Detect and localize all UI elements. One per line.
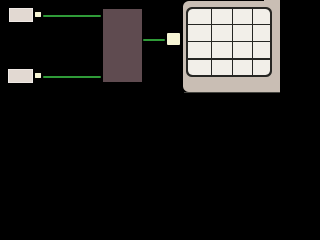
- grid vertical line 2: [232, 9, 234, 75]
- grid vertical line 3: [252, 9, 254, 75]
- grid horizontal line 1: [188, 24, 270, 26]
- module M1 bottom edge line: [184, 92, 280, 93]
- wire W3 (U1 right to module pin): [143, 39, 165, 41]
- wire W2 (SW2 pin to U1 left, lower): [43, 76, 101, 78]
- module M1 body (keypad/matrix, clipped at right edge): [183, 1, 282, 93]
- module M1 grid face (white): [188, 9, 270, 75]
- pin pad of SW1: [35, 12, 41, 16]
- wire W1 (SW1 pin to U1 left, upper): [43, 15, 101, 17]
- component SW1 body (top-left switch/button): [9, 8, 34, 22]
- grid horizontal line 2: [188, 41, 270, 43]
- grid horizontal line 3: [188, 58, 270, 60]
- pin pad of module M1: [167, 33, 181, 45]
- IC U1 (dark controller block): [103, 9, 142, 83]
- grid vertical line 1: [211, 9, 213, 75]
- pin pad of SW2: [35, 73, 41, 78]
- module M1 top edge sliver (body reaches canvas top at right): [264, 0, 281, 2]
- component SW2 body (bottom-left switch/button): [8, 69, 33, 83]
- module M1 grid frame (dark border): [186, 7, 272, 77]
